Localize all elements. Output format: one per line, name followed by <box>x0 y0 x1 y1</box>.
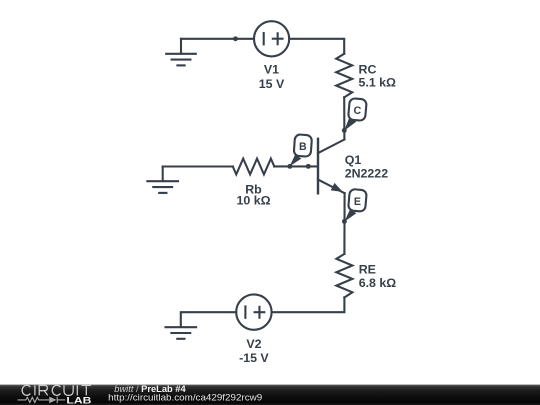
label Rb value <box>236 182 270 207</box>
ground GND3 (bottom left) <box>166 327 197 339</box>
node flag E <box>344 189 366 222</box>
svg-text:-15 V: -15 V <box>239 351 269 365</box>
node flag B <box>290 134 312 166</box>
svg-text:Q1: Q1 <box>345 153 362 167</box>
transistor Q1 (NPN 2N2222) <box>318 139 345 194</box>
wire V2 to GND3 <box>181 312 236 327</box>
svg-text:RC: RC <box>359 62 377 76</box>
wire GND2 to Rb <box>163 165 233 167</box>
wire RC to collector <box>343 97 345 139</box>
node dot emitter <box>342 219 347 224</box>
svg-text:http://circuitlab.com/ca429f29: http://circuitlab.com/ca429f292rcw9 <box>108 393 262 403</box>
svg-text:LAB: LAB <box>66 395 91 405</box>
svg-text:RE: RE <box>359 263 376 277</box>
footer bar <box>0 384 540 405</box>
svg-text:E: E <box>354 196 361 208</box>
svg-text:2N2222: 2N2222 <box>345 167 389 181</box>
svg-text:10 kΩ: 10 kΩ <box>236 193 270 207</box>
svg-text:5.1 kΩ: 5.1 kΩ <box>359 75 397 89</box>
label RE value <box>359 263 397 290</box>
node flag C <box>343 98 367 133</box>
CircuitLab logo wordmark CIRCUIT <box>22 385 91 395</box>
wire RE to V2 <box>272 297 345 312</box>
svg-text:15 V: 15 V <box>259 77 285 91</box>
CircuitLab logo schematic squiggle <box>18 397 66 404</box>
ground GND1 (top left) <box>166 39 196 66</box>
node dot base pin <box>306 164 311 169</box>
node dot top net <box>233 36 238 41</box>
ground GND2 (middle left) <box>147 167 178 193</box>
node dot collector <box>342 128 347 133</box>
svg-text:B: B <box>299 141 307 153</box>
label V1 value <box>259 63 285 91</box>
label Q1 value <box>345 153 389 181</box>
svg-text:C: C <box>353 104 362 117</box>
wire emitter down <box>343 193 345 254</box>
voltage source V2 <box>236 294 271 329</box>
svg-text:V1: V1 <box>264 63 279 77</box>
svg-text:6.8 kΩ: 6.8 kΩ <box>359 276 397 290</box>
wire V1 to RC corner <box>289 39 344 54</box>
resistor Rb <box>233 159 274 175</box>
svg-text:V2: V2 <box>246 337 261 351</box>
label RC value <box>359 62 397 89</box>
resistor RE <box>336 254 352 298</box>
node dot base B-flag <box>287 164 292 169</box>
label V2 value <box>239 337 269 365</box>
wire Rb to base <box>274 165 317 167</box>
wire GND1 to V1 <box>181 38 254 40</box>
resistor RC <box>336 54 352 98</box>
voltage source V1 <box>254 21 289 56</box>
